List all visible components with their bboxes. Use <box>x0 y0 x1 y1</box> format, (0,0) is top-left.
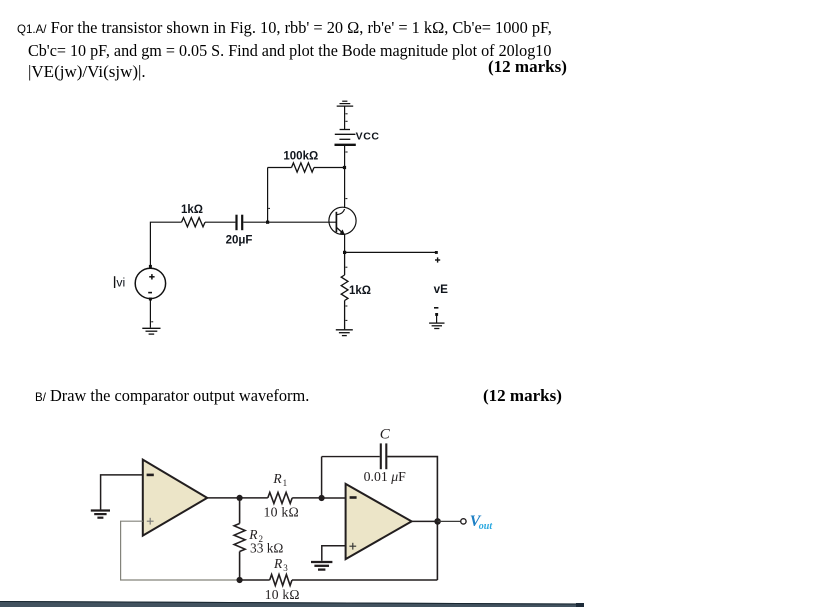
wire: R3 to output leg <box>292 579 437 581</box>
svg-text:10 kΩ: 10 kΩ <box>264 505 299 520</box>
wire: U1 inverting input to ground <box>101 475 143 510</box>
wire: U1 noninverting input to bottom rail (gray) <box>121 521 240 580</box>
question text line 2 <box>28 41 551 61</box>
wire: source up and right to series resistor <box>150 222 181 266</box>
svg-text:R: R <box>272 471 282 486</box>
resistor 1kΩ (emitter, vertical) <box>341 252 348 329</box>
svg-text:C: C <box>380 427 391 443</box>
node: output junction <box>434 518 441 525</box>
svg-text:R: R <box>273 556 283 571</box>
bottom bar <box>0 601 584 607</box>
bottom bar end cap <box>576 603 584 607</box>
wire: base node to transistor base <box>268 221 337 223</box>
ground (vE - terminal) <box>429 313 444 329</box>
wire: R1 to node B <box>292 497 321 499</box>
node A (U1 output / R1 / R2 junction) <box>237 495 243 501</box>
capacitor C <box>381 443 387 469</box>
wire: node B up to feedback rail <box>321 457 323 498</box>
svg-text:100kΩ: 100kΩ <box>283 151 318 163</box>
svg-text:out: out <box>479 521 494 532</box>
wire: emitter down to emitter node <box>344 235 346 253</box>
question text line 3 <box>28 62 146 82</box>
source vi (circle with +/-) <box>135 268 165 298</box>
marks B <box>483 386 562 406</box>
svg-text:10 kΩ: 10 kΩ <box>265 587 300 602</box>
wire: bottom rail node to R3 <box>240 579 270 581</box>
question text line 1 <box>17 18 552 38</box>
svg-text:1kΩ: 1kΩ <box>181 204 203 216</box>
wire: U1 output to node A <box>207 497 240 499</box>
ground (below source vi) <box>142 328 160 334</box>
label vi <box>115 275 126 289</box>
node: base junction <box>266 221 269 224</box>
label - (vE polarity) <box>434 307 438 309</box>
wire: junction down to transistor collector <box>344 168 346 209</box>
resistor R1 <box>268 492 292 503</box>
wire: feedback rail right segment down to output node <box>387 457 437 522</box>
node: emitter junction <box>343 251 346 254</box>
capacitor 20μF <box>237 215 243 231</box>
node: source bottom terminal <box>149 298 152 301</box>
wire: feedback rail left segment <box>322 456 380 458</box>
wire: source bottom to ground <box>149 299 151 328</box>
op-amp U1 (left) <box>143 460 207 536</box>
wire: capacitor to base node <box>243 221 267 223</box>
ground (U1 inverting input) <box>91 511 110 518</box>
resistor 100kΩ (bias, horizontal) <box>268 163 343 172</box>
resistor R2 (vertical) <box>234 498 245 580</box>
terminal Vout (open circle) <box>461 519 466 524</box>
battery VCC <box>335 130 356 168</box>
op-amp U2 (right) <box>346 484 412 559</box>
ground (below emitter resistor) <box>336 330 353 336</box>
wire: resistor to capacitor <box>205 221 235 223</box>
svg-text:33 kΩ: 33 kΩ <box>250 540 283 555</box>
svg-text:vE: vE <box>434 283 449 296</box>
node: source top terminal <box>149 265 152 268</box>
node C (bottom rail / R2 junction) <box>237 577 243 583</box>
svg-text:VCC: VCC <box>356 131 380 143</box>
ground (U2 noninverting input) <box>311 562 332 570</box>
wire: output leg up from bottom rail <box>436 521 438 580</box>
ground (top rail above VCC battery) <box>337 101 354 129</box>
wire: output node to Vout terminal <box>438 520 461 522</box>
svg-text:20μF: 20μF <box>226 234 253 246</box>
part B text <box>35 386 309 406</box>
transistor Q1 <box>329 207 356 235</box>
marks A <box>488 57 567 77</box>
label + (vE polarity) <box>435 257 440 262</box>
wire: node B to U2 inverting input <box>322 497 346 499</box>
wire: U2 output to output node <box>412 520 438 522</box>
svg-text:0.01 μF: 0.01 μF <box>364 469 407 484</box>
svg-text:3: 3 <box>283 563 288 573</box>
wire: U2 noninverting input to ground <box>322 546 346 561</box>
node: collector / bias-resistor junction <box>343 166 346 169</box>
svg-text:1: 1 <box>283 478 288 488</box>
svg-text:vi: vi <box>116 275 125 289</box>
wire: emitter node right to vE terminal <box>345 251 437 253</box>
node B (R1 / C / U2 inverting junction) <box>319 495 325 501</box>
node: vE + terminal <box>435 251 438 254</box>
svg-text:1kΩ: 1kΩ <box>349 285 371 297</box>
resistor R3 <box>270 575 292 586</box>
wire: bias resistor left end down to base node <box>267 168 269 223</box>
wire: node A to R1 <box>240 497 268 499</box>
resistor 1kΩ (series input) <box>182 218 206 227</box>
wire ticks (scan artifacts) <box>151 114 347 322</box>
